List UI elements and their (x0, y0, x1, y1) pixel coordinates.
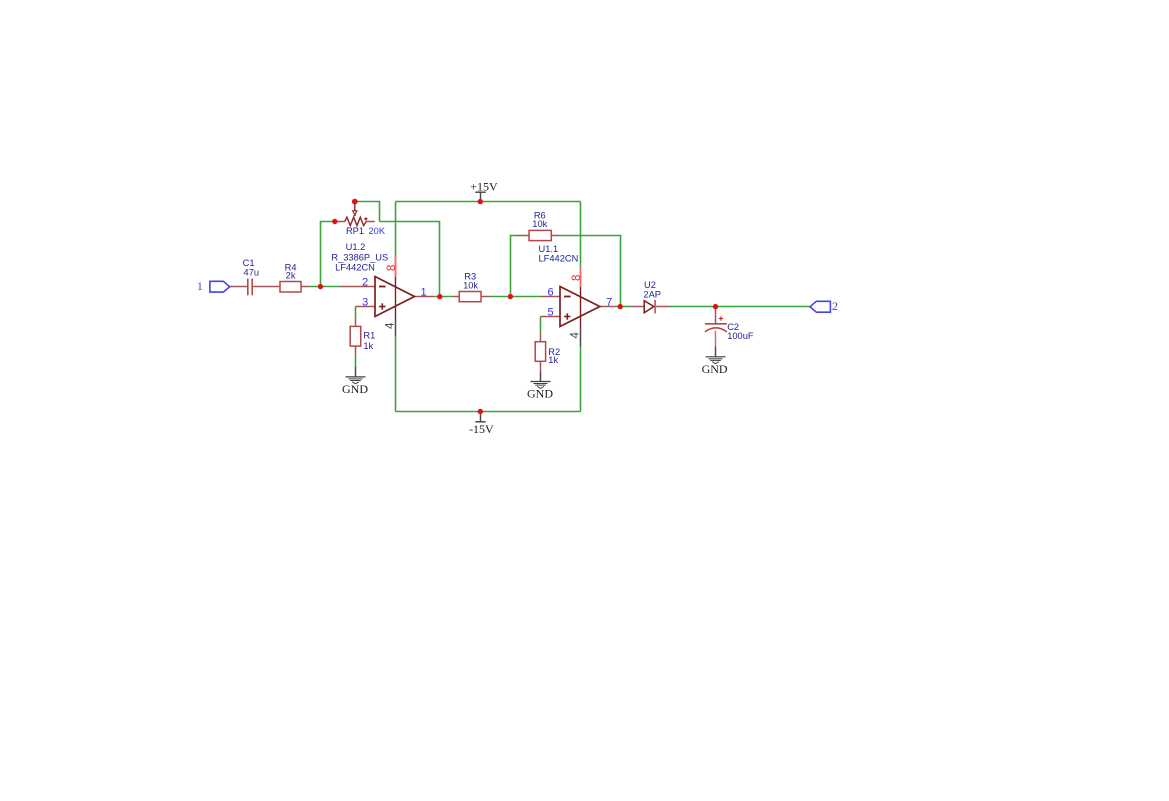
C2 polarity plus (719, 316, 723, 320)
diode cathode bar (654, 300, 656, 314)
wire lead R1 bottom (355, 346, 357, 356)
junction R3 right (508, 294, 513, 299)
diode U2 (644, 301, 654, 313)
svg-text:RP1: RP1 (346, 226, 364, 236)
potentiometer RP1 (345, 204, 367, 226)
port 1 (210, 281, 230, 292)
svg-text:4: 4 (570, 332, 582, 339)
wire lead R1 top (355, 317, 357, 326)
capacitor C1 (248, 279, 252, 296)
ground below R1 (346, 366, 366, 383)
RP1 right terminal dot (364, 217, 367, 220)
junction C2 top (713, 304, 718, 309)
wire lead RP1 left (335, 221, 345, 223)
junction -15V rail (478, 409, 483, 414)
pin 8 interior U1.1 (580, 287, 582, 328)
wire input node to pin2 segment (310, 286, 341, 288)
svg-text:8: 8 (386, 265, 398, 271)
junction RP1 left (332, 219, 337, 224)
svg-text:8: 8 (571, 275, 583, 281)
junction +15V rail (478, 199, 483, 204)
pin 4 stub U1.1 (580, 328, 582, 347)
junction input node (318, 284, 323, 289)
port 2 (810, 301, 830, 312)
ground below R2 (531, 371, 551, 388)
U1.2 minus mark (379, 286, 386, 288)
wire lead port1 to C1 (230, 286, 247, 288)
wire R3 to pin6 (490, 296, 541, 298)
svg-text:R1: R1 (363, 330, 375, 340)
resistor R2 (535, 342, 545, 362)
junction U1.1 output (618, 304, 623, 309)
-15V power symbol (475, 412, 485, 422)
wire right supply vertical top (580, 202, 582, 268)
svg-text:47u: 47u (244, 267, 260, 277)
wire lead pin 5 (541, 316, 561, 318)
wire right supply vertical bottom (580, 347, 582, 412)
wire diode to port 2 (670, 306, 811, 308)
svg-text:7: 7 (606, 297, 612, 309)
junction U1.2 output (437, 294, 442, 299)
wire lead R6 left (517, 235, 529, 237)
svg-text:U1.2: U1.2 (346, 242, 366, 252)
U1.1 plus mark (564, 313, 570, 319)
+15V power symbol (475, 192, 485, 202)
resistor R1 (350, 326, 361, 346)
U1.1 minus mark (564, 296, 571, 298)
svg-text:1: 1 (197, 279, 203, 293)
svg-text:2k: 2k (286, 271, 296, 281)
op-amp U1.2 (375, 277, 415, 317)
svg-text:+15V: +15V (470, 179, 498, 193)
svg-text:R_3386P_US: R_3386P_US (331, 252, 388, 262)
pin 4 stub U1.2 (395, 318, 397, 337)
wire lead R4 right (301, 286, 310, 288)
wire R1 to ground (355, 356, 357, 367)
svg-text:100uF: 100uF (727, 331, 754, 341)
pin 8 interior U1.2 (395, 277, 397, 318)
svg-text:GND: GND (342, 382, 368, 396)
ground below C2 (706, 346, 726, 363)
wire left supply vertical bottom (395, 337, 397, 412)
wire lead pin 3 (356, 306, 376, 308)
wire left supply vertical top (395, 202, 397, 257)
wire R6 left vertical (511, 236, 518, 297)
wire pin5 to R2 (540, 317, 542, 332)
wire lead pin 2 (340, 286, 375, 288)
wire -15V bottom rail (396, 411, 581, 413)
resistor R4 (280, 282, 301, 293)
resistor R3 (459, 292, 481, 302)
svg-text:LF442CN: LF442CN (335, 263, 375, 273)
svg-text:U1.1: U1.1 (539, 244, 559, 254)
wire lead C2 bottom (715, 331, 717, 347)
wire input node to RP1 left (vertical) (321, 222, 335, 287)
wire feedback horizontal to output node (380, 222, 440, 297)
svg-text:2AP: 2AP (643, 290, 661, 300)
junction RP1 wiper (352, 199, 358, 205)
wire lead U1.2 output (415, 296, 435, 298)
svg-text:10k: 10k (463, 280, 478, 290)
svg-text:20K: 20K (369, 226, 386, 236)
svg-text:10k: 10k (532, 219, 547, 229)
svg-text:GND: GND (702, 362, 728, 376)
svg-text:-15V: -15V (469, 422, 494, 436)
svg-text:GND: GND (527, 386, 553, 400)
pin 8 stub U1.2 (395, 257, 397, 277)
wire lead R6 right (551, 235, 558, 237)
wire lead RP1 right (366, 221, 375, 223)
wire lead C1 to R4 (253, 286, 280, 288)
wire pin3 to R1 (355, 307, 357, 318)
wire lead U1.1 output (600, 306, 615, 308)
wire lead R2 bottom (540, 361, 542, 371)
wire lead R3 left (452, 296, 459, 298)
wire lead pin 6 (541, 296, 561, 298)
svg-text:3: 3 (362, 297, 368, 309)
wire lead R3 right (481, 296, 490, 298)
wire U1.1 output to diode (615, 306, 631, 308)
wire lead diode anode (630, 306, 644, 308)
svg-text:1: 1 (420, 287, 426, 299)
wire lead R2 top (540, 332, 542, 342)
wire lead diode cathode (655, 306, 669, 308)
U1.2 plus mark (379, 303, 385, 309)
wire RP1 wiper to feedback (355, 202, 380, 222)
wire U1.2 output to R3 (434, 296, 452, 298)
pin 8 stub U1.1 (580, 267, 582, 287)
svg-text:1k: 1k (548, 355, 558, 365)
wire R6 right to output node (559, 236, 621, 307)
wire +15V top rail (396, 201, 581, 203)
svg-text:6: 6 (548, 287, 554, 299)
wire lead C2 top (715, 307, 717, 324)
svg-text:4: 4 (385, 322, 397, 329)
RP1 wiper tip dot (354, 214, 356, 216)
svg-text:LF442CN: LF442CN (539, 253, 579, 263)
resistor R6 (529, 230, 551, 240)
svg-text:2: 2 (362, 277, 368, 289)
svg-text:5: 5 (548, 307, 554, 319)
op-amp U1.1 (560, 287, 600, 327)
svg-text:2: 2 (832, 299, 838, 313)
svg-text:1k: 1k (363, 341, 373, 351)
capacitor C2 (705, 324, 727, 332)
